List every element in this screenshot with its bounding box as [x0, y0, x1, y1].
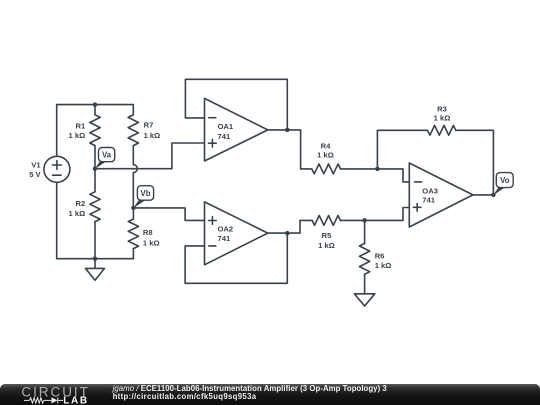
- svg-text:1 kΩ: 1 kΩ: [69, 131, 86, 140]
- wire junction to OA3 inverting input: [377, 169, 409, 182]
- svg-text:741: 741: [218, 234, 231, 243]
- wire V1 bottom to ground rail: [56, 182, 58, 258]
- resistor R5: [300, 216, 365, 250]
- svg-text:Vo: Vo: [500, 176, 510, 185]
- svg-text:LAB: LAB: [63, 396, 89, 405]
- footer title text: [113, 384, 387, 393]
- svg-text:OA1: OA1: [218, 122, 234, 131]
- svg-text:R6: R6: [375, 252, 385, 261]
- node Vo: [491, 173, 513, 197]
- node junction ground rail / R2: [93, 256, 98, 261]
- node junction R4 / R3 / OA3 inverting: [375, 167, 380, 172]
- wire OA3 output: [473, 194, 494, 196]
- node junction top rail / R1: [93, 102, 98, 107]
- wire V1 top to top rail: [56, 105, 58, 157]
- svg-text:V1: V1: [31, 160, 41, 169]
- svg-text:1 kΩ: 1 kΩ: [144, 131, 161, 140]
- svg-text:R7: R7: [144, 121, 154, 130]
- svg-text:R5: R5: [322, 231, 332, 240]
- footer bar: [0, 384, 540, 405]
- svg-text:R1: R1: [75, 122, 85, 131]
- resistor R1: [69, 105, 101, 169]
- node junction R5 / R6 / OA3 noninverting: [362, 218, 367, 223]
- wire OA2 feedback loop: [185, 233, 287, 283]
- op-amp OA1: [205, 98, 268, 161]
- resistor R6: [359, 220, 391, 293]
- wire OA1 feedback loop: [185, 79, 287, 130]
- svg-text:OA3: OA3: [422, 187, 438, 196]
- node Va: [93, 148, 115, 171]
- op-amp OA3: [409, 163, 473, 227]
- svg-text:741: 741: [218, 132, 231, 141]
- footer url text: [113, 392, 257, 401]
- svg-text:1 kΩ: 1 kΩ: [434, 114, 451, 123]
- wire junction to OA3 noninverting input: [365, 208, 410, 221]
- svg-text:Va: Va: [102, 150, 112, 159]
- op-amp OA2: [205, 202, 268, 265]
- ground below R6: [354, 294, 374, 306]
- svg-text:1 kΩ: 1 kΩ: [143, 238, 160, 247]
- voltage source V1: [29, 156, 70, 182]
- svg-text:5 V: 5 V: [29, 170, 41, 179]
- svg-text:OA2: OA2: [218, 224, 234, 233]
- wire Va to OA1 noninverting input: [95, 143, 205, 169]
- svg-text:R8: R8: [143, 228, 153, 237]
- resistor R4: [301, 141, 378, 174]
- svg-text:R3: R3: [437, 104, 447, 113]
- resistor R8: [128, 208, 159, 259]
- svg-text:1 kΩ: 1 kΩ: [375, 261, 392, 270]
- wire OA2 output: [268, 220, 300, 233]
- wire junction up to R3: [377, 130, 427, 169]
- wire OA1 output: [268, 130, 301, 169]
- resistor R7 (hops over Va wire): [128, 105, 160, 208]
- svg-text:R2: R2: [75, 199, 85, 208]
- svg-text:1 kΩ: 1 kΩ: [69, 209, 86, 218]
- wire ground rail: [57, 258, 134, 260]
- ground: [86, 259, 105, 281]
- resistor R3: [428, 104, 494, 195]
- wire Vb to OA2 noninverting input: [133, 208, 204, 221]
- node Vb: [131, 186, 153, 210]
- svg-text:Vb: Vb: [141, 189, 151, 198]
- svg-text:1 kΩ: 1 kΩ: [318, 241, 335, 250]
- svg-text:741: 741: [422, 196, 435, 205]
- node junction OA2 output: [285, 231, 290, 236]
- CircuitLab logo: [0, 384, 100, 405]
- wire top rail: [57, 104, 134, 106]
- resistor R2: [69, 169, 101, 259]
- svg-text:1 kΩ: 1 kΩ: [317, 151, 334, 160]
- node junction OA1 output: [285, 128, 290, 133]
- svg-text:R4: R4: [321, 141, 331, 150]
